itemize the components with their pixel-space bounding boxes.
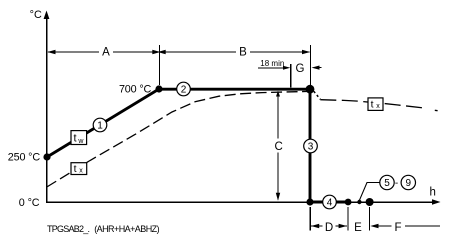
curve t_x furnace (dashed, left part) (47, 91, 309, 187)
svg-text:(AHR+HA+ABHZ): (AHR+HA+ABHZ) (94, 224, 159, 234)
svg-text:700 °C: 700 °C (119, 84, 152, 96)
svg-text:x: x (79, 168, 83, 175)
callout circle 9 (401, 175, 415, 189)
leader line to callout 5-9 (359, 183, 380, 201)
svg-text:TPGSAB2_.: TPGSAB2_. (47, 224, 90, 234)
svg-text:w: w (77, 138, 84, 145)
svg-text:h: h (430, 187, 436, 199)
svg-text:B: B (239, 47, 247, 59)
curve t_w quench drop segment (thick) (309, 89, 312, 202)
node 700°C point (155, 85, 162, 92)
svg-text:E: E (354, 222, 362, 234)
dimension C (vertical) (272, 91, 285, 201)
svg-text:2: 2 (181, 85, 187, 96)
svg-text:F: F (394, 222, 401, 234)
svg-text:x: x (376, 103, 380, 110)
svg-text:4: 4 (327, 198, 333, 209)
y-axis (44, 11, 50, 203)
label box t_w (71, 131, 87, 145)
node after D on axis (345, 199, 352, 206)
svg-text:G: G (296, 63, 305, 75)
svg-text:D: D (325, 222, 333, 234)
svg-text:°C: °C (30, 9, 42, 21)
curve t_x after quench (right part, dashed) (314, 91, 438, 110)
svg-text:250 °C: 250 °C (8, 152, 41, 164)
dimension D (311, 220, 347, 234)
svg-text:t: t (74, 163, 77, 175)
node quench end on axis (306, 198, 313, 205)
callout circle 2 (177, 82, 191, 96)
svg-text:5: 5 (384, 178, 390, 189)
extension line at end of B (to end-of-hold point) (310, 45, 312, 86)
callout circle 3 (304, 139, 318, 153)
node small between D and E (357, 200, 361, 204)
svg-text:3: 3 (308, 142, 314, 153)
curve t_w heat-up segment (thick) (47, 89, 159, 157)
dimension row ticks (310, 207, 369, 231)
svg-text:t: t (371, 98, 374, 110)
curve t_w along axis segment (thick) (310, 201, 347, 204)
extension line at end of A (to 700°C point) (159, 45, 161, 85)
dimension G (296, 63, 322, 75)
x-axis (46, 199, 441, 205)
svg-text:9: 9 (406, 178, 412, 189)
node end of hold point (306, 85, 315, 94)
svg-text:-: - (395, 178, 398, 189)
svg-text:18 min: 18 min (260, 59, 284, 68)
svg-text:A: A (102, 47, 110, 59)
svg-text:t: t (74, 133, 77, 145)
node 250°C start point (43, 153, 50, 160)
curve t_w hold segment (thick) (159, 88, 310, 91)
dimension B (158, 45, 311, 59)
label box t_x (left) (71, 163, 87, 175)
dimension A (47, 45, 160, 59)
dimension F (370, 222, 440, 234)
label 18 min with leader arrow (258, 59, 291, 88)
svg-text:C: C (275, 141, 283, 153)
callout circle 5 (380, 175, 394, 189)
callout circle 1 (93, 118, 107, 132)
svg-text:0 °C: 0 °C (19, 197, 40, 209)
label box t_x (right) (368, 98, 383, 111)
svg-text:1: 1 (97, 121, 103, 132)
node after E on axis (366, 198, 374, 206)
callout circle 4 (323, 195, 337, 209)
